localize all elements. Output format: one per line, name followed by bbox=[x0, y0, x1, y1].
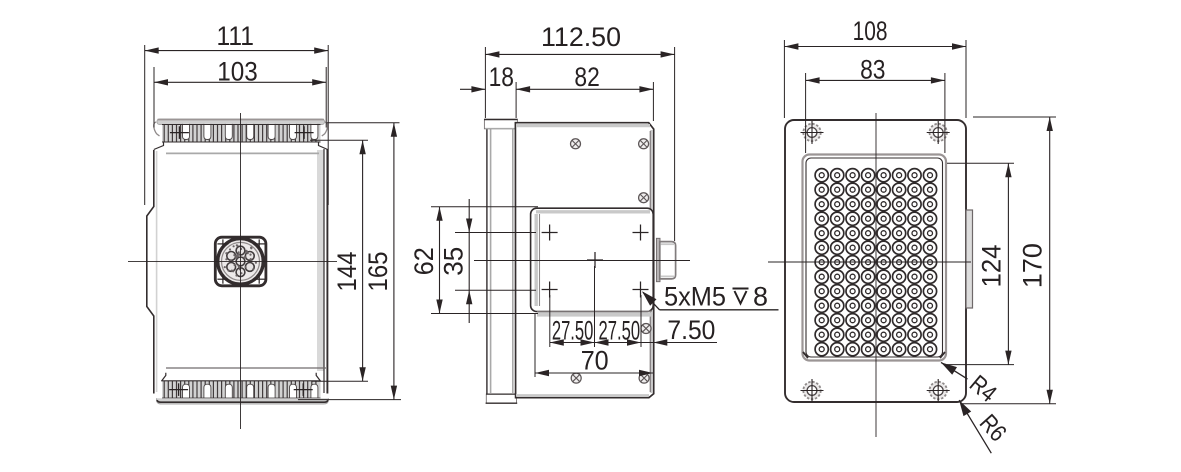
dimension 111 bbox=[145, 21, 329, 205]
dimension 70 bbox=[535, 314, 653, 377]
side connector flange bbox=[656, 238, 660, 281]
svg-text:27.50: 27.50 bbox=[552, 316, 594, 346]
svg-text:18: 18 bbox=[489, 62, 514, 92]
back screw top-left bbox=[801, 121, 824, 144]
side screw lower-right bbox=[641, 324, 651, 334]
front connector M12 socket bbox=[215, 237, 266, 286]
side screw bottom-right bbox=[639, 373, 649, 383]
svg-text:7.50: 7.50 bbox=[667, 315, 715, 345]
dimension 62 bbox=[409, 207, 538, 314]
svg-text:35: 35 bbox=[438, 247, 468, 276]
svg-text:165: 165 bbox=[363, 252, 393, 292]
svg-text:8: 8 bbox=[753, 282, 768, 312]
front view bottom fins band bbox=[162, 381, 321, 399]
side view bottom cap bbox=[486, 394, 518, 403]
label R4 with leader bbox=[941, 362, 1001, 407]
dimension 112.50 bbox=[485, 22, 674, 241]
dimension 82 bbox=[516, 62, 653, 121]
back view horizontal centerline bbox=[768, 261, 971, 263]
side view top cap bbox=[484, 119, 518, 129]
front view top heatsink cap bbox=[154, 119, 328, 136]
side screw mid-right bbox=[639, 193, 649, 203]
svg-text:27.50: 27.50 bbox=[599, 316, 641, 346]
front view bottom fin screw crosses bbox=[169, 383, 313, 396]
side screw top-left bbox=[571, 139, 581, 149]
LED array bbox=[815, 169, 937, 356]
svg-text:70: 70 bbox=[581, 345, 609, 375]
svg-text:82: 82 bbox=[574, 62, 599, 92]
svg-text:62: 62 bbox=[409, 247, 439, 275]
svg-text:111: 111 bbox=[217, 21, 254, 51]
svg-text:83: 83 bbox=[860, 54, 885, 84]
svg-text:5xM5: 5xM5 bbox=[664, 282, 726, 312]
svg-text:124: 124 bbox=[977, 245, 1007, 288]
dimension 108 bbox=[784, 16, 966, 118]
back screw bottom-right bbox=[927, 379, 950, 402]
dimension 35 bbox=[438, 199, 536, 323]
plate M5 hole crosses bbox=[542, 225, 649, 298]
front view top fin screw crosses bbox=[170, 126, 314, 139]
side view horizontal centerline bbox=[474, 260, 690, 262]
side screw top-right bbox=[639, 139, 649, 149]
side connector barrel bbox=[660, 242, 676, 279]
dimension 170 bbox=[962, 117, 1056, 404]
front view inner top shoulder line bbox=[166, 152, 319, 154]
back view lens bezel bbox=[803, 155, 947, 361]
svg-text:103: 103 bbox=[217, 56, 258, 86]
side screw bottom-left bbox=[571, 373, 581, 383]
back screw top-right bbox=[927, 121, 950, 144]
dimension 27.50 pair and 7.50 bbox=[550, 266, 717, 347]
dimension 124 bbox=[947, 163, 1014, 364]
dimension 83 bbox=[806, 54, 945, 153]
front view horizontal centerline bbox=[128, 260, 337, 262]
front view outline (left view) bbox=[147, 142, 328, 394]
back side tab bbox=[966, 210, 973, 308]
back view vertical centerline bbox=[875, 113, 877, 437]
back screw bottom-left bbox=[801, 379, 824, 402]
svg-text:144: 144 bbox=[332, 252, 362, 292]
front view top fins band bbox=[162, 124, 321, 142]
dimension 144 bbox=[310, 140, 368, 381]
svg-text:112.50: 112.50 bbox=[541, 22, 621, 52]
label 5xM5 depth 8 with leader bbox=[642, 282, 779, 312]
side view fin strip bbox=[487, 121, 516, 395]
side view mounting plate bbox=[531, 208, 654, 314]
side view main body bbox=[515, 123, 653, 398]
dimension 165 bbox=[298, 123, 401, 400]
front view inner bottom shoulder line bbox=[166, 367, 326, 369]
dimension 18 bbox=[460, 62, 516, 118]
front view vertical centerline bbox=[240, 113, 242, 429]
svg-text:108: 108 bbox=[853, 16, 888, 46]
dimension 103 bbox=[154, 56, 326, 127]
svg-text:170: 170 bbox=[1018, 243, 1048, 288]
back view body bbox=[785, 120, 966, 402]
front view bottom cap bbox=[157, 398, 329, 404]
label R6 with leader bbox=[959, 400, 1011, 453]
